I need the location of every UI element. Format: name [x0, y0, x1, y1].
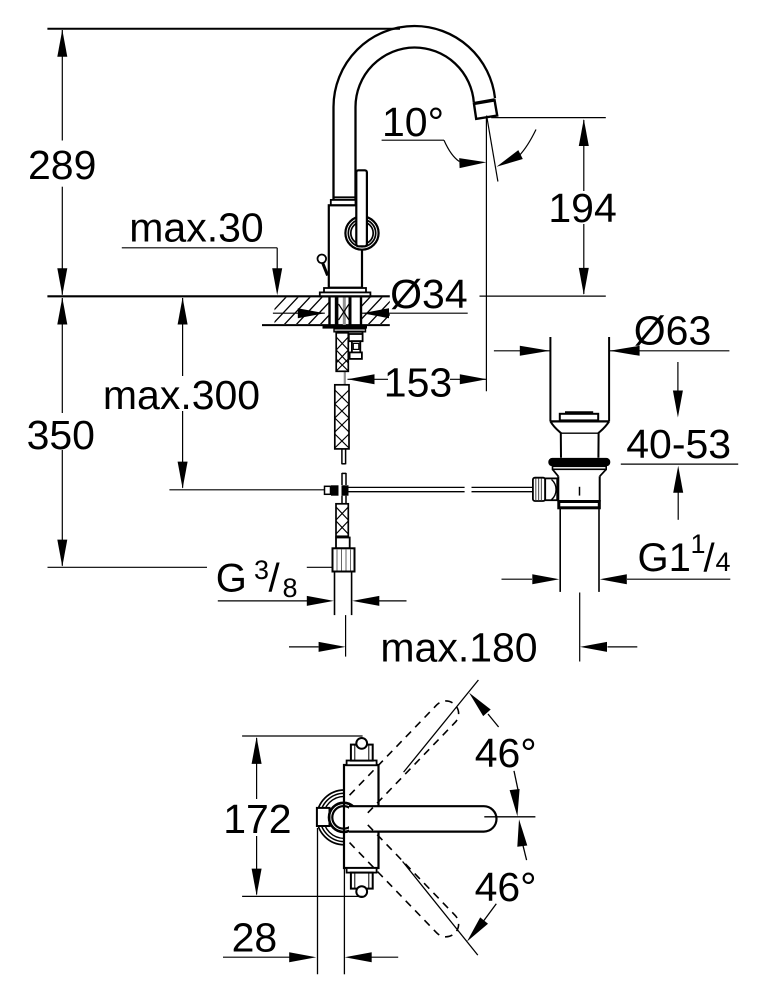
svg-text:max.180: max.180	[380, 625, 537, 671]
dimension 40-53 underline	[621, 463, 738, 465]
svg-text:194: 194	[548, 185, 616, 231]
drain body bottom band	[559, 502, 600, 508]
spout pipe joint line	[334, 196, 356, 198]
spout collar	[331, 200, 356, 205]
base flange lower step	[320, 292, 371, 296]
faucet spout inner contour	[356, 48, 474, 201]
deck top line right segment	[480, 295, 606, 297]
dimension max.300 line	[182, 298, 184, 376]
dimension 10 deg leader	[382, 139, 444, 141]
plan vertical line right	[343, 868, 345, 974]
plan spout rotated 46 down (dashed)	[350, 825, 464, 942]
faucet shank in hole	[328, 298, 330, 325]
svg-text:G1: G1	[638, 536, 691, 580]
dimension G3/8 line	[218, 600, 307, 602]
faucet supply centerline	[345, 615, 347, 657]
locknut	[323, 325, 368, 328]
plan top port circle	[356, 738, 367, 749]
svg-text:Ø34: Ø34	[390, 271, 468, 317]
drain center tick	[579, 487, 581, 496]
handle mount circles	[345, 217, 378, 250]
pop-up rod knob	[318, 254, 327, 263]
spout tip vertical extension line	[485, 117, 487, 392]
deck bottom line	[262, 324, 390, 326]
spout tip aerator	[474, 100, 497, 119]
dimension 46 upper extension line	[404, 680, 479, 772]
svg-text:/: /	[269, 556, 281, 600]
drain trumpet	[550, 421, 561, 457]
dimension 40-53 lower arrow	[673, 466, 683, 493]
hose end fitting	[336, 538, 350, 549]
dimension 46 upper arc	[469, 693, 491, 717]
svg-text:289: 289	[28, 142, 96, 188]
svg-text:8: 8	[283, 573, 298, 603]
dimension 153 line	[348, 378, 389, 380]
svg-text:3: 3	[254, 555, 269, 585]
lift rod (gray)	[344, 369, 346, 392]
flexible hose segment 2	[335, 385, 349, 449]
spout axis line (10 deg)	[487, 116, 498, 182]
dimension max.30 leader	[122, 247, 277, 249]
plan top stub	[351, 745, 373, 761]
dimension 10 deg arc	[519, 130, 536, 156]
plan pivot arcs	[317, 790, 372, 845]
plan spout root rings	[329, 803, 358, 832]
deck top line	[47, 295, 389, 297]
dimension Dia34 line	[273, 312, 325, 314]
svg-text:46°: 46°	[475, 864, 537, 910]
dimension G1-1/4 line	[502, 578, 533, 580]
svg-text:G: G	[216, 556, 247, 600]
G3/8 connection nut	[333, 548, 355, 571]
G3/8 pipe	[334, 572, 336, 616]
drain top pipe	[549, 337, 551, 421]
dimension max.180 line	[289, 646, 319, 648]
drain flange under O-ring	[553, 466, 607, 469]
drain rod connector	[545, 478, 557, 500]
faucet spout outer contour	[334, 26, 496, 200]
dimension 46 lower extension line	[403, 862, 478, 956]
dimension 28 line	[223, 956, 290, 958]
drain O-ring	[548, 458, 610, 466]
drain centerline	[579, 593, 581, 662]
drain taper	[553, 469, 559, 476]
dimension Dia63 line	[494, 350, 550, 352]
dimension 350 line	[61, 298, 63, 413]
plan tube centerline segment	[484, 816, 535, 818]
plan spout rotated 46 up (dashed)	[350, 696, 464, 813]
plan body	[344, 765, 379, 868]
drain rod knob (knurled)	[533, 478, 545, 501]
valve connector	[349, 334, 363, 341]
svg-text:4: 4	[716, 547, 731, 577]
svg-text:max.300: max.300	[103, 372, 260, 418]
dimension 172 top reference	[242, 735, 363, 737]
plan left tab	[317, 808, 330, 826]
dimension 350 bottom reference line	[48, 566, 208, 568]
drain tailpipe	[559, 508, 561, 592]
drain lift cap	[565, 411, 593, 413]
base flange upper step	[324, 288, 366, 293]
svg-text:/: /	[704, 537, 716, 581]
dimension 289 line	[61, 30, 63, 141]
hose pipe piece	[341, 449, 343, 464]
dimension 172 line	[256, 738, 258, 799]
dimension max.300 bottom reference line	[169, 489, 324, 491]
pop-up rod junction	[325, 486, 331, 494]
drain flange top	[550, 420, 609, 422]
plan bottom lip	[347, 868, 377, 873]
svg-text:max.30: max.30	[129, 204, 263, 250]
hose nib below junction	[341, 496, 343, 504]
svg-text:Ø63: Ø63	[634, 308, 712, 354]
plan vertical line left	[317, 828, 319, 974]
dimension 172 bottom reference	[242, 895, 363, 897]
plan top lip	[347, 761, 377, 766]
plan bottom stub	[351, 873, 373, 889]
svg-text:28: 28	[232, 915, 278, 961]
dimension 194 line	[583, 120, 585, 191]
horizontal pop-up rod	[349, 486, 465, 488]
dimension 46 lower arc	[517, 819, 527, 846]
drain body	[557, 476, 559, 501]
hose nib above junction	[341, 473, 343, 485]
dimension 194 top reference line	[491, 117, 606, 119]
top reference line (spout top)	[47, 28, 400, 30]
faucet body	[329, 205, 362, 287]
svg-text:153: 153	[384, 360, 452, 406]
dimension 40-53 line	[677, 362, 679, 391]
handle lever	[356, 170, 367, 246]
svg-text:40-53: 40-53	[626, 421, 731, 467]
svg-text:350: 350	[27, 412, 95, 458]
flexible hose segment 1	[336, 333, 348, 372]
svg-text:10°: 10°	[382, 99, 444, 145]
flexible hose segment 3	[336, 504, 348, 537]
svg-text:46°: 46°	[475, 730, 537, 776]
plan spout tube	[349, 806, 496, 831]
svg-text:172: 172	[223, 796, 291, 842]
plan bottom port circle	[356, 886, 367, 897]
